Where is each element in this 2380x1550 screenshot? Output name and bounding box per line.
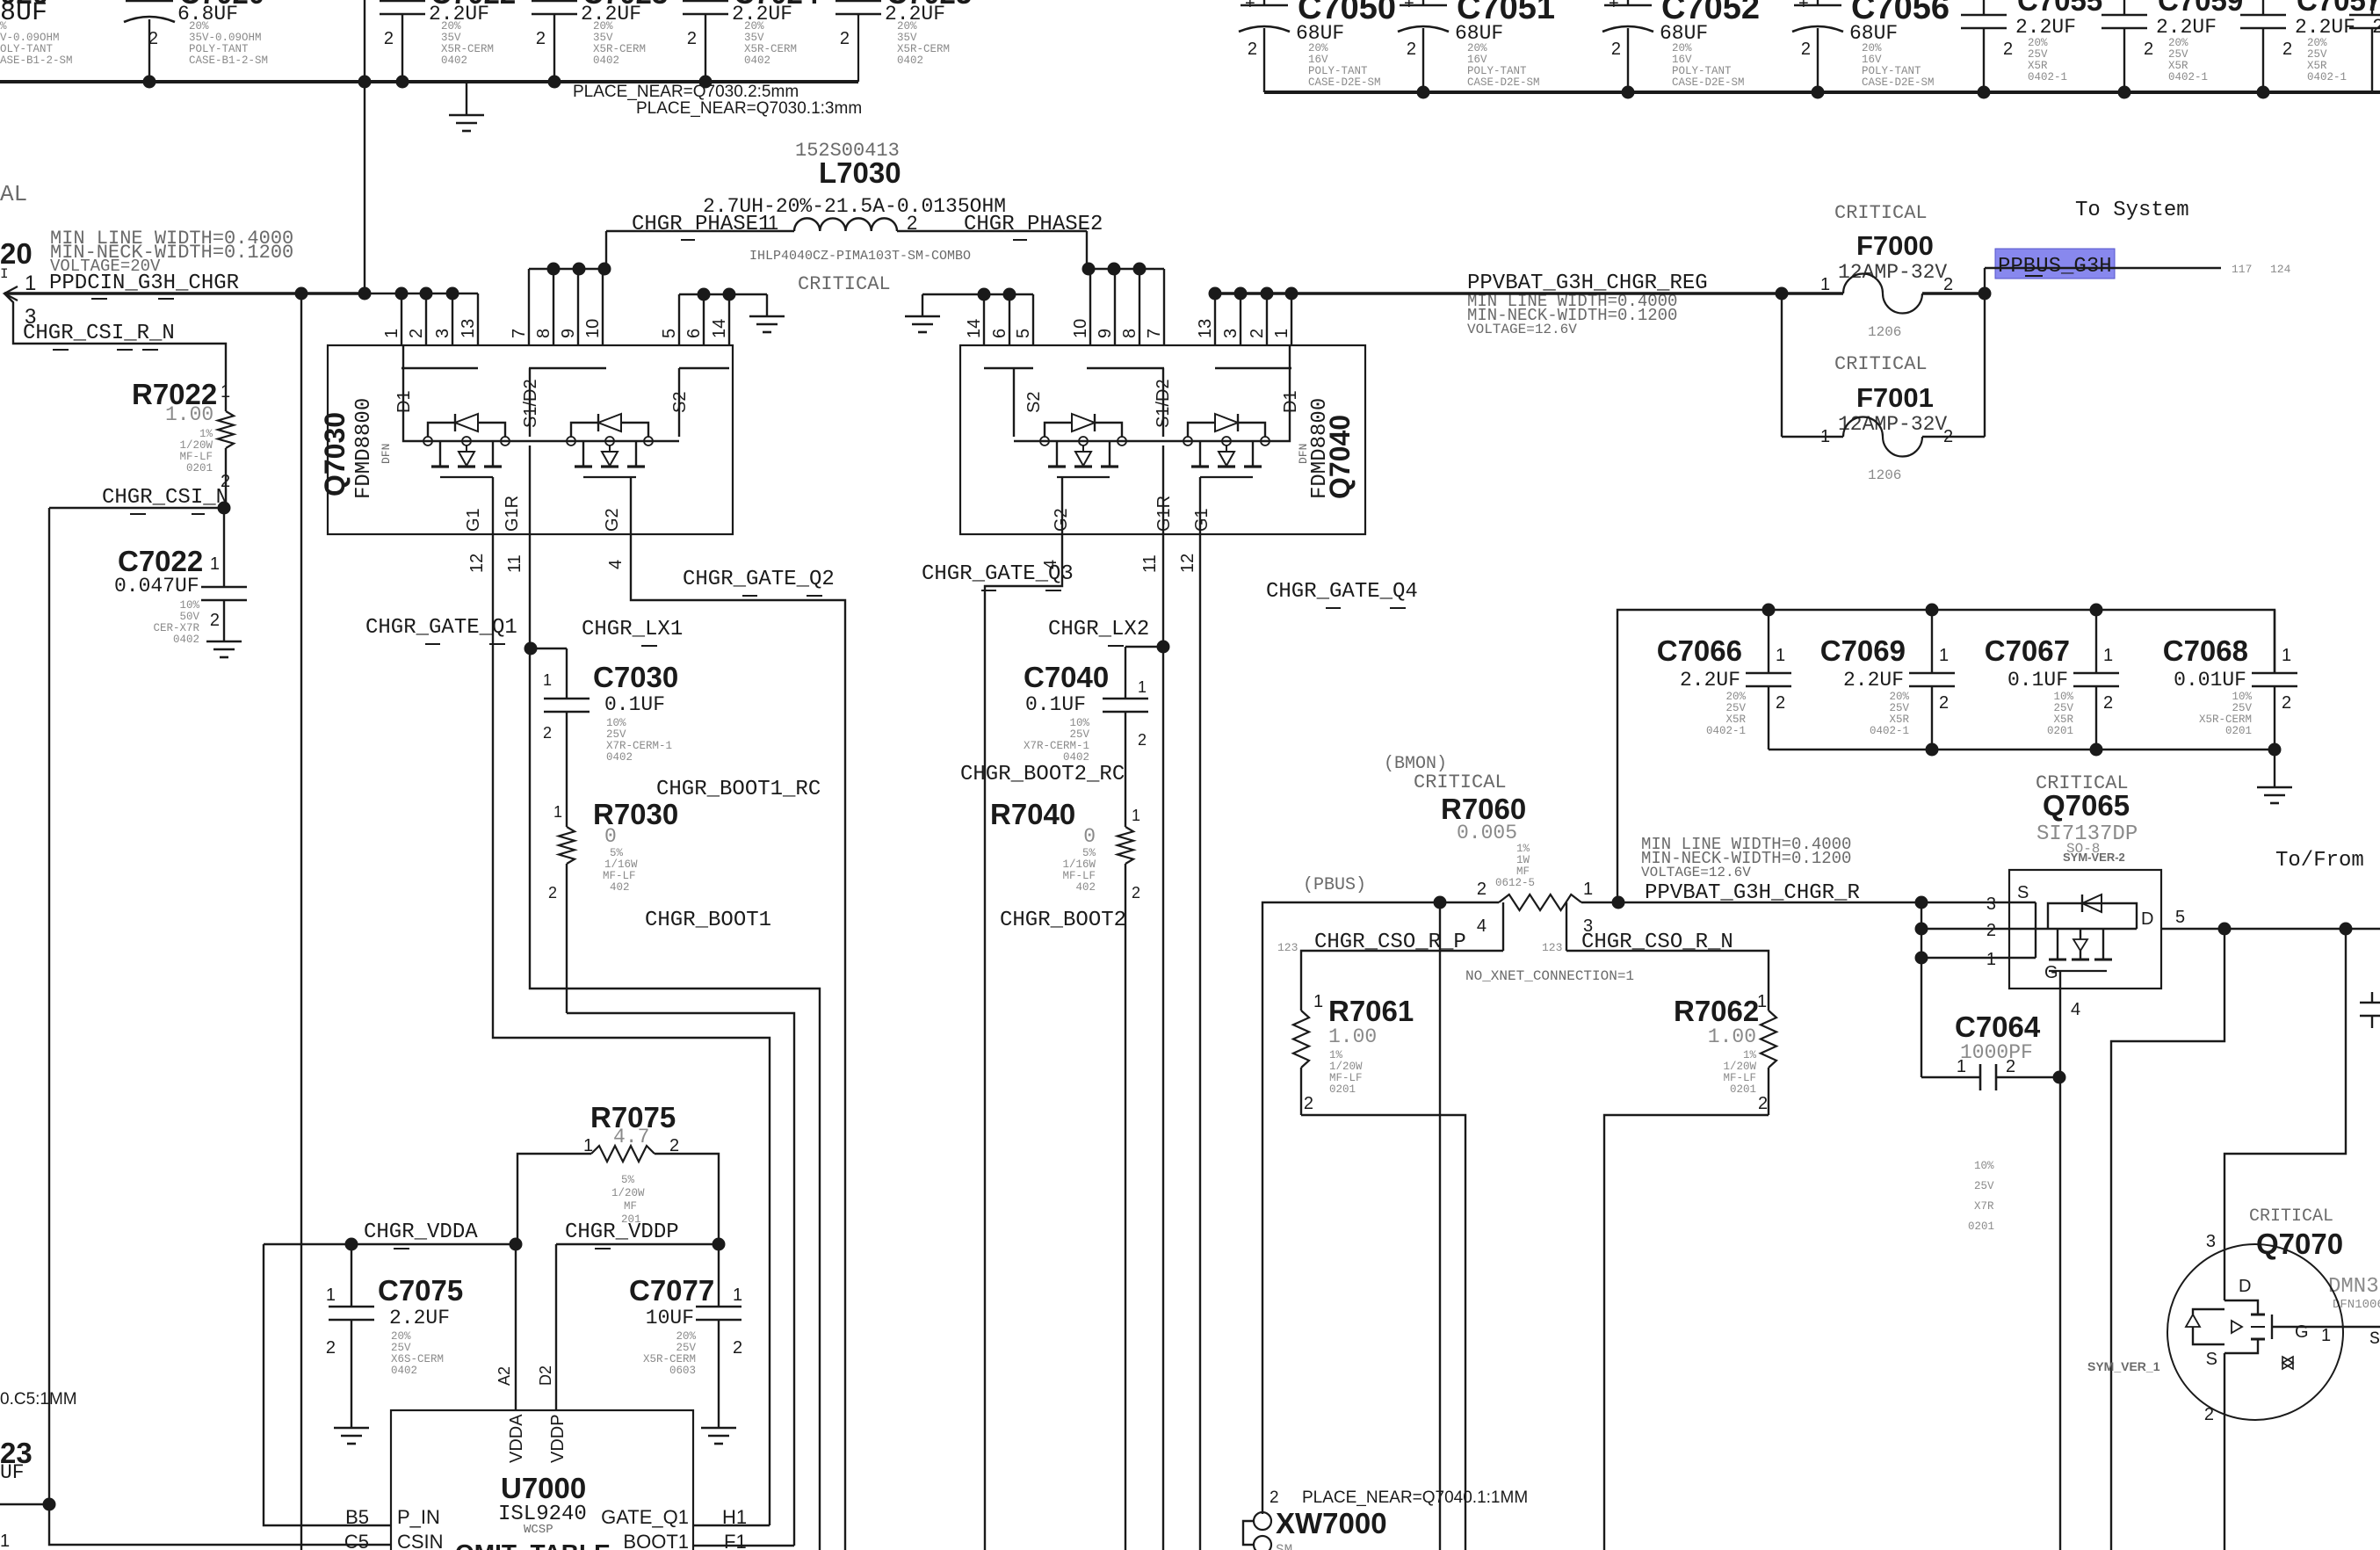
svg-text:0201: 0201 [1968, 1220, 1994, 1233]
svg-text:MF-LF: MF-LF [603, 870, 636, 882]
svg-text:D2: D2 [537, 1365, 554, 1386]
node bus junction dots [143, 76, 713, 89]
svg-text:1: 1 [1583, 880, 1593, 899]
wire PPVBAT_G3H_CHGR_R [1581, 896, 2036, 909]
svg-text:FDMD8800: FDMD8800 [1308, 398, 1332, 499]
label U7000 right pins [601, 1506, 747, 1550]
svg-text:4: 4 [1477, 916, 1487, 936]
svg-text:MF-LF: MF-LF [1723, 1072, 1756, 1084]
svg-text:CASE-B1-2-SM: CASE-B1-2-SM [189, 54, 268, 67]
svg-text:L7030: L7030 [819, 156, 901, 189]
capacitor right edge cut [2360, 992, 2380, 1028]
capacitor C7077 10UF [629, 1244, 742, 1428]
wire PPBUS top bus [1264, 91, 2380, 94]
svg-text:CHGR_BOOT2_RC: CHGR_BOOT2_RC [960, 763, 1125, 786]
svg-text:0: 0 [604, 825, 617, 848]
wire cap bank top rail [1617, 604, 2275, 903]
svg-text:(PBUS): (PBUS) [1303, 875, 1366, 895]
wire PPDCIN down to U7000 [300, 293, 302, 1550]
svg-text:16V: 16V [1862, 54, 1882, 66]
svg-text:5: 5 [660, 329, 679, 338]
wire U7000 BOOT1 pin [693, 1545, 794, 1546]
wire Q7040 S2 ground wire [922, 288, 1033, 346]
svg-text:1/20W: 1/20W [1723, 1061, 1756, 1073]
svg-text:25V: 25V [606, 728, 626, 741]
transistor Q7030 FDMD8800 box [328, 345, 733, 534]
svg-text:D: D [2141, 909, 2153, 929]
svg-text:25V: 25V [1974, 1180, 1994, 1192]
svg-text:25V: 25V [1889, 702, 1909, 714]
svg-text:14: 14 [710, 319, 729, 338]
svg-text:0402: 0402 [593, 54, 619, 67]
svg-text:D: D [2239, 1277, 2251, 1296]
wire cap bank bottom rail [1769, 743, 2282, 757]
svg-text:CRITICAL: CRITICAL [1834, 202, 1928, 224]
node top-right bus dots [1417, 86, 2270, 99]
svg-text:402: 402 [1075, 881, 1096, 894]
svg-text:UF: UF [0, 1461, 25, 1484]
label net CHGR_GATE_Q3 [922, 562, 1074, 590]
svg-text:POLY-TANT: POLY-TANT [1467, 65, 1527, 77]
svg-text:20%: 20% [2307, 37, 2327, 49]
label Q7030 pin numbers bottom [467, 554, 626, 573]
svg-text:5%: 5% [621, 1174, 635, 1186]
wire PPDCIN_G3H_CHGR [4, 286, 478, 345]
ground (C7075) [334, 1428, 369, 1444]
svg-text:VOLTAGE=12.6V: VOLTAGE=12.6V [1467, 322, 1577, 337]
svg-text:16V: 16V [1308, 54, 1328, 66]
capacitor C7023 2.2UF [532, 0, 668, 82]
svg-text:14: 14 [965, 319, 984, 338]
svg-text:C7030: C7030 [593, 661, 678, 693]
svg-text:S2: S2 [1024, 392, 1044, 413]
svg-text:16V: 16V [1672, 54, 1692, 66]
label Q7040 pin names [1024, 379, 1300, 532]
svg-text:12AMP-32V: 12AMP-32V [1838, 261, 1947, 284]
svg-text:3: 3 [1986, 895, 1996, 914]
wire CHGR_LX2 to C7040 stub [1125, 647, 1163, 699]
wire CHGR_PHASE1 [529, 231, 794, 345]
svg-text:35V: 35V [593, 32, 613, 44]
svg-text:2: 2 [733, 1338, 742, 1358]
svg-text:124: 124 [2270, 263, 2291, 276]
label Q7040 pin numbers bottom [1041, 554, 1197, 573]
svg-text:9: 9 [1096, 329, 1115, 338]
capacitor C7066 2.2UF [1657, 610, 1791, 750]
svg-text:0402: 0402 [897, 54, 923, 67]
svg-text:5: 5 [1014, 329, 1033, 338]
svg-text:35V: 35V [441, 32, 461, 44]
svg-text:R7040: R7040 [990, 798, 1075, 830]
svg-text:CHGR_BOOT1: CHGR_BOOT1 [645, 909, 771, 932]
capacitor C7055 2.2UF [1961, 0, 2102, 92]
svg-text:DMN32D: DMN32D [2328, 1275, 2380, 1299]
label MIN LINE WIDTH (PPVBAT) [1467, 292, 1677, 337]
svg-text:SYM_VER_1: SYM_VER_1 [2087, 1359, 2160, 1373]
svg-text:CHGR_VDDP: CHGR_VDDP [565, 1220, 679, 1244]
svg-text:2: 2 [2282, 693, 2291, 713]
svg-text:1000PF: 1000PF [1960, 1041, 2033, 1064]
capacitor C7064 1000PF [1921, 958, 2059, 1233]
svg-text:1: 1 [1776, 646, 1785, 665]
capacitor C7068 0.01UF [2163, 610, 2297, 750]
svg-text:IHLP4040CZ-PIMA103T-SM-COMBO: IHLP4040CZ-PIMA103T-SM-COMBO [749, 249, 971, 264]
label net CHGR_BOOT2 [1000, 909, 1126, 932]
pin 3 CHGR_CSI_R_N [25, 305, 36, 329]
svg-text:X5R-CERM: X5R-CERM [593, 43, 646, 55]
svg-text:G: G [2295, 1322, 2309, 1342]
svg-text:0402: 0402 [173, 634, 199, 646]
svg-text:F7001: F7001 [1856, 382, 1934, 413]
ground (Q7030 S2) [749, 294, 785, 332]
svg-text:1W: 1W [1516, 854, 1530, 866]
svg-text:PLACE_NEAR=Q7040.1:1MM: PLACE_NEAR=Q7040.1:1MM [1302, 1488, 1528, 1507]
svg-text:0402: 0402 [441, 54, 467, 67]
svg-text:5: 5 [2175, 908, 2185, 927]
svg-text:2: 2 [2204, 1405, 2214, 1424]
wire CHGR_CSI_N [49, 502, 231, 1505]
label OMIT_TABLE [455, 1539, 611, 1550]
label PLACE_NEAR XW7000 [1270, 1488, 1528, 1507]
label MIN LINE WIDTH (left) [50, 228, 293, 276]
svg-text:G: G [2044, 963, 2058, 982]
svg-text:8: 8 [534, 329, 553, 338]
svg-text:0.1UF: 0.1UF [604, 693, 665, 716]
svg-text:35V-0.09OHM: 35V-0.09OHM [189, 32, 262, 44]
capacitor C7021 (cut at left edge) [0, 0, 73, 67]
svg-text:2: 2 [1611, 40, 1621, 59]
wire CHGR_CSI_R_N [4, 293, 226, 391]
svg-text:CHGR_PHASE1: CHGR_PHASE1 [632, 213, 770, 236]
svg-text:2.2UF: 2.2UF [2295, 16, 2355, 39]
svg-text:20%: 20% [1889, 691, 1909, 703]
label Q7065 part [2036, 822, 2138, 864]
wire PPBUS branch down-left [2111, 929, 2224, 1550]
svg-text:2: 2 [1304, 1094, 1313, 1113]
svg-text:1: 1 [543, 671, 552, 689]
capacitor C7058 (cut at right edge) [2349, 0, 2380, 92]
svg-text:20%: 20% [593, 20, 613, 33]
label net CHGR_GATE_Q4 [1266, 580, 1418, 608]
svg-text:10%: 10% [606, 717, 626, 729]
svg-text:0402-1: 0402-1 [2028, 71, 2067, 83]
svg-text:CER-X7R: CER-X7R [153, 622, 199, 634]
svg-text:12: 12 [1178, 554, 1197, 573]
svg-text:1: 1 [0, 1532, 10, 1550]
svg-text:2: 2 [2372, 16, 2380, 39]
ground (C7022) [206, 641, 242, 657]
svg-text:2: 2 [2144, 40, 2153, 59]
capacitor C7040 0.1UF [1024, 661, 1148, 827]
svg-text:+: + [1798, 0, 1809, 13]
wire CHGR_LX2 [1157, 534, 1170, 1550]
svg-text:0402: 0402 [391, 1365, 417, 1377]
svg-text:2: 2 [326, 1338, 336, 1358]
svg-text:2: 2 [543, 724, 552, 742]
wire CHGR_PHASE2 [897, 231, 1164, 345]
svg-text:X5R-CERM: X5R-CERM [643, 1353, 696, 1365]
pin 1 PPDCIN [25, 272, 36, 295]
wire CHGR_LX1 to C7030 stub [531, 648, 567, 685]
svg-text:0402-1: 0402-1 [1870, 725, 1909, 737]
capacitor C7057 2.2UF [2240, 0, 2380, 92]
label net CHGR_BOOT1 [645, 909, 771, 932]
svg-text:7: 7 [510, 329, 529, 338]
svg-text:1%: 1% [1329, 1049, 1343, 1061]
capacitor C7020 6.8UF poly-tant [124, 0, 268, 82]
wire Q7040 internal D1 rail [984, 345, 1291, 534]
label Q7030 pin names [394, 379, 690, 532]
svg-text:0612-5: 0612-5 [1495, 877, 1535, 889]
svg-text:1: 1 [1138, 678, 1147, 696]
svg-text:C7075: C7075 [378, 1274, 463, 1307]
label net CHGR_LX2 [1048, 618, 1149, 646]
svg-text:VOLTAGE=12.6V: VOLTAGE=12.6V [1641, 865, 1751, 880]
svg-text:3: 3 [1221, 329, 1241, 338]
svg-text:CHGR_GATE_Q1: CHGR_GATE_Q1 [365, 616, 517, 640]
svg-text:+: + [1245, 0, 1255, 13]
transistor Q7070 DMN32D circle [2167, 1232, 2343, 1424]
wire PPBUS branch to Q7070 [2224, 929, 2346, 1244]
svg-text:0402-1: 0402-1 [2307, 71, 2347, 83]
svg-text:C7077: C7077 [629, 1274, 714, 1307]
svg-text:20%: 20% [441, 20, 461, 33]
label net CHGR_BOOT2_RC [960, 763, 1125, 786]
svg-text:CSIN: CSIN [397, 1531, 444, 1550]
svg-text:20%: 20% [744, 20, 764, 33]
svg-text:MF-LF: MF-LF [1062, 870, 1096, 882]
svg-text:25V: 25V [676, 1342, 696, 1354]
svg-text:POLY-TANT: POLY-TANT [1672, 65, 1732, 77]
svg-text:1: 1 [1132, 807, 1140, 824]
svg-text:123: 123 [1542, 941, 1562, 954]
svg-text:1: 1 [210, 554, 220, 574]
svg-text:6: 6 [990, 329, 1009, 338]
svg-text:MF: MF [624, 1200, 637, 1213]
wire Q7030 internal D1 rail [401, 345, 729, 534]
svg-text:CASE-D2E-SM: CASE-D2E-SM [1308, 76, 1381, 89]
svg-text:0402: 0402 [1063, 751, 1089, 764]
svg-text:25V: 25V [1725, 702, 1746, 714]
svg-text:1206: 1206 [1868, 467, 1901, 483]
svg-text:0603: 0603 [669, 1365, 696, 1377]
label net CHGR_GATE_Q1 [365, 616, 517, 644]
svg-text:F7000: F7000 [1856, 230, 1934, 261]
svg-text:6: 6 [684, 329, 704, 338]
svg-text:117: 117 [2232, 263, 2252, 276]
svg-text:S: S [2017, 883, 2029, 902]
label U7000 designator [498, 1472, 587, 1537]
svg-text:0201: 0201 [1329, 1083, 1356, 1096]
svg-text:X5R: X5R [2307, 60, 2327, 72]
svg-text:4: 4 [606, 560, 626, 569]
label NO_XNET_CONNECTION [1465, 968, 1634, 984]
wire CHGR_GATE_Q4 [1199, 534, 1201, 1550]
label Q7070 part [2328, 1275, 2380, 1350]
svg-text:G2: G2 [603, 508, 622, 532]
svg-text:2: 2 [1270, 1488, 1279, 1507]
svg-text:11: 11 [1140, 554, 1160, 573]
svg-text:11: 11 [505, 554, 524, 573]
label (PBUS) [1303, 875, 1366, 895]
svg-text:POLY-TANT: POLY-TANT [1862, 65, 1921, 77]
svg-text:CHGR_BOOT2: CHGR_BOOT2 [1000, 909, 1126, 932]
resistor R7022 [132, 378, 234, 508]
svg-text:Q7065: Q7065 [2043, 789, 2130, 822]
svg-text:1: 1 [733, 1286, 742, 1305]
transistor Q7040 FDMD8800 box [960, 345, 1365, 534]
label net CHGR_LX1 [582, 618, 683, 646]
capacitor C7024 2.2UF [683, 0, 820, 82]
svg-text:Q7030: Q7030 [319, 412, 351, 496]
svg-text:0402-1: 0402-1 [1706, 725, 1746, 737]
svg-text:1: 1 [2282, 646, 2291, 665]
svg-text:0.1UF: 0.1UF [2007, 669, 2068, 692]
svg-text:0: 0 [1083, 825, 1096, 848]
svg-text:B5: B5 [345, 1506, 369, 1528]
capacitor C7051 68UF poly-tant [1398, 0, 1555, 92]
svg-text:PLACE_NEAR=Q7030.2:5mm: PLACE_NEAR=Q7030.2:5mm [573, 83, 799, 101]
svg-text:R7060: R7060 [1441, 793, 1526, 825]
svg-text:G1R: G1R [503, 496, 522, 532]
svg-text:1: 1 [2103, 646, 2113, 665]
svg-text:2.2UF: 2.2UF [1843, 669, 1904, 692]
svg-text:C7040: C7040 [1024, 661, 1109, 693]
svg-text:25V: 25V [2307, 48, 2327, 61]
label net CHGR_VDDP [565, 1220, 679, 1249]
svg-text:DFN: DFN [1297, 444, 1310, 464]
svg-text:3: 3 [2206, 1232, 2216, 1251]
svg-text:%: % [0, 20, 7, 33]
label net CHGR_BOOT1_RC [656, 778, 821, 801]
fuse F7001 12AMP-32V [1782, 293, 1985, 483]
svg-text:10%: 10% [2053, 691, 2073, 703]
svg-text:C5: C5 [344, 1531, 369, 1550]
svg-text:MF-LF: MF-LF [1329, 1072, 1363, 1084]
svg-text:CHGR_CSI_N: CHGR_CSI_N [102, 486, 228, 510]
svg-text:+: + [1609, 0, 1619, 13]
svg-text:2: 2 [2006, 1057, 2015, 1076]
svg-text:16V: 16V [1467, 54, 1487, 66]
wire Q7065 drain pin5 [2161, 908, 2380, 936]
label net CHGR_PHASE1 [632, 213, 770, 240]
capacitor C7025 2.2UF [836, 0, 972, 67]
svg-text:25V: 25V [2232, 702, 2252, 714]
svg-text:1: 1 [1272, 329, 1291, 338]
wire PBUS [1262, 896, 1499, 1550]
svg-text:2: 2 [1407, 40, 1416, 59]
svg-text:X7R: X7R [1974, 1200, 1994, 1213]
svg-text:2: 2 [669, 1136, 679, 1155]
svg-text:402: 402 [610, 881, 630, 894]
label To/From [2275, 849, 2364, 873]
svg-text:X5R: X5R [1725, 713, 1746, 726]
svg-text:C7022: C7022 [118, 545, 203, 577]
resistor R7040 0 ohm [990, 798, 1140, 1550]
svg-text:10: 10 [583, 319, 603, 338]
svg-text:2: 2 [1477, 880, 1487, 899]
transistor Q7065 box [2009, 870, 2161, 989]
label net CHGR_CSI_R_N [23, 322, 175, 350]
label Q7070 designator [2256, 1228, 2343, 1260]
svg-text:G1: G1 [464, 508, 483, 532]
svg-text:20%: 20% [2168, 37, 2188, 49]
svg-text:2.2UF: 2.2UF [2156, 16, 2217, 39]
svg-text:P_IN: P_IN [397, 1506, 440, 1528]
svg-text:35V: 35V [744, 32, 764, 44]
svg-text:1.00: 1.00 [1328, 1025, 1377, 1048]
svg-text:CASE-D2E-SM: CASE-D2E-SM [1862, 76, 1935, 89]
svg-text:MF: MF [1516, 866, 1530, 878]
label cut texts left edge [0, 181, 33, 282]
svg-text:CHGR_GATE_Q3: CHGR_GATE_Q3 [922, 562, 1074, 586]
svg-text:1: 1 [382, 329, 401, 338]
label To System [2075, 199, 2189, 222]
svg-text:PLACE_NEAR=Q7030.1:3mm: PLACE_NEAR=Q7030.1:3mm [636, 99, 862, 118]
resistor R7060 0.005 [1441, 793, 1593, 951]
wire CHGR_CSO_R_N [1566, 951, 1769, 1010]
label MIN LINE WIDTH (CHGR_R) [1641, 835, 1851, 880]
svg-text:CHGR_LX1: CHGR_LX1 [582, 618, 683, 641]
wire U7000 CSIN [0, 1498, 391, 1546]
wire CHGR_CSO_R_P [1301, 951, 1503, 1010]
label CRITICAL Q7065 [2036, 772, 2129, 794]
svg-text:1: 1 [553, 803, 562, 821]
wire CSO_R_N bottom [1604, 1115, 1769, 1550]
svg-text:20%: 20% [1862, 42, 1882, 54]
svg-text:V-0.09OHM: V-0.09OHM [0, 32, 60, 44]
svg-text:To/From: To/From [2275, 849, 2364, 873]
svg-text:X5R-CERM: X5R-CERM [2199, 713, 2252, 726]
test point XW7000 [1243, 1507, 1387, 1550]
svg-text:C7066: C7066 [1657, 634, 1742, 667]
label Q7030 pin numbers top [382, 319, 729, 338]
svg-text:C7064: C7064 [1955, 1010, 2041, 1043]
svg-text:5%: 5% [610, 847, 624, 859]
label net PPVBAT_G3H_CHGR_R [1645, 881, 1860, 905]
svg-text:1: 1 [1820, 275, 1830, 294]
svg-text:2: 2 [407, 329, 426, 338]
wire Q7070 source down [2224, 1420, 2225, 1550]
svg-text:CRITICAL: CRITICAL [798, 273, 891, 295]
svg-text:POLY-TANT: POLY-TANT [189, 43, 249, 55]
svg-text:0.047UF: 0.047UF [114, 575, 199, 598]
svg-text:GATE_Q1: GATE_Q1 [601, 1506, 689, 1528]
svg-text:10%: 10% [1974, 1160, 1994, 1172]
svg-text:X7R-CERM-1: X7R-CERM-1 [1024, 740, 1089, 752]
svg-text:2: 2 [1801, 40, 1811, 59]
wire CHGR_GATE_Q3 [985, 534, 1062, 1550]
svg-text:123: 123 [1277, 941, 1298, 954]
label net PPDCIN_G3H_CHGR [49, 272, 239, 299]
svg-text:X7R-CERM-1: X7R-CERM-1 [606, 740, 672, 752]
capacitor C7067 0.1UF [1985, 610, 2119, 750]
svg-text:Q7070: Q7070 [2256, 1228, 2343, 1260]
svg-text:PPBUS_G3H: PPBUS_G3H [1998, 255, 2112, 279]
svg-text:10%: 10% [1069, 717, 1089, 729]
svg-text:2: 2 [2282, 40, 2292, 59]
svg-text:R7062: R7062 [1674, 995, 1759, 1027]
label net CHGR_PHASE2 [964, 213, 1103, 240]
svg-text:12: 12 [467, 554, 487, 573]
svg-text:OMIT_TABLE: OMIT_TABLE [455, 1539, 611, 1550]
label wire numbers 117 124 [2232, 263, 2291, 276]
svg-text:1: 1 [2321, 1326, 2331, 1345]
svg-text:I: I [0, 266, 9, 282]
ground (C7077) [701, 1428, 736, 1444]
node net PPBUS_G3H highlighted [1995, 249, 2115, 279]
svg-text:X6S-CERM: X6S-CERM [391, 1353, 444, 1365]
